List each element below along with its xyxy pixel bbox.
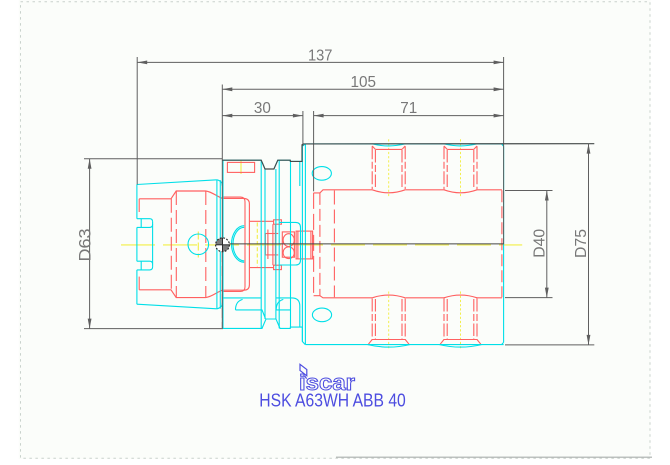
- threaded hole 4 (bottom right): [443, 299, 445, 340]
- shank-flange corner top: [217, 180, 223, 186]
- dim D63 arrows: [88, 159, 92, 169]
- shank bore step line 1: [170, 199, 172, 290]
- center ball: [216, 238, 230, 252]
- groove edge b: [260, 161, 262, 329]
- ext line left 137: [136, 57, 138, 185]
- screw cylinder rect: [296, 231, 313, 259]
- dim D63 line: [89, 159, 91, 329]
- clamp cross bottom: [265, 254, 278, 256]
- shank bore outline (hidden): [139, 191, 249, 298]
- hole3 centerline: [388, 292, 390, 350]
- dim 137 line: [137, 61, 503, 63]
- body bore top wall: [314, 190, 502, 193]
- centerline dark: [223, 243, 504, 245]
- body bore end face: [501, 190, 503, 297]
- body face ellipse top: [312, 167, 331, 181]
- clamp small rect top: [274, 220, 282, 224]
- shank bore left face top: [138, 199, 140, 212]
- screw ball upper: [283, 234, 294, 247]
- ext line step 30: [302, 111, 304, 146]
- clamp sphere arc outer: [231, 226, 244, 263]
- body left face: [304, 144, 306, 345]
- dim 71 arrows: [314, 114, 324, 118]
- iscar logo leaf: [300, 364, 307, 378]
- shank bore left face bottom: [138, 277, 140, 290]
- ext line D75 bottom: [505, 344, 594, 346]
- flange top edge with V-groove: [223, 144, 305, 169]
- ext line D63 top: [84, 158, 222, 160]
- dim 71 line: [314, 115, 504, 117]
- shank tip face: [136, 185, 138, 305]
- ext line body datum 71: [313, 111, 315, 191]
- gripper slot bottom: [223, 298, 299, 327]
- shank bore inner wall: [222, 197, 245, 291]
- side hole circle: [188, 234, 209, 255]
- ext line D40 top: [505, 190, 553, 192]
- flange bottom edge with V-groove: [223, 319, 305, 345]
- screw cylinder inner right: [310, 231, 312, 259]
- title block base line: [336, 456, 652, 458]
- body bore inner step: [319, 193, 321, 296]
- hole2 mouth arc: [444, 144, 477, 146]
- dark top profile: [222, 144, 594, 169]
- svg-text:D63: D63: [77, 229, 95, 262]
- hole3 mouth arc: [368, 345, 410, 348]
- svg-text:105: 105: [351, 74, 377, 91]
- mechanism vertical centerline: [256, 223, 258, 267]
- clamp sphere arc inner: [233, 227, 244, 261]
- clamp left column c: [272, 224, 274, 265]
- screw ball lower: [283, 247, 294, 259]
- shank-flange corner bottom: [217, 303, 223, 309]
- groove edge c: [264, 169, 266, 319]
- side hole vertical centerline: [197, 232, 199, 258]
- drive slot floor edge: [152, 222, 154, 267]
- threaded hole 2 (top right): [443, 146, 445, 189]
- groove edge e: [278, 161, 280, 329]
- flange keyway rect: [227, 162, 254, 172]
- keyway centerline: [240, 161, 242, 175]
- dim 30 line: [222, 115, 303, 117]
- drive slot bottom: [137, 261, 153, 270]
- main horizontal centerline (yellow): [121, 244, 522, 246]
- body bore mouth line: [313, 193, 315, 296]
- clamp left column b: [267, 230, 269, 260]
- clamp left column d: [274, 224, 276, 265]
- dim D75 arrows: [587, 144, 591, 154]
- groove edge f: [290, 161, 292, 329]
- clamp connector top: [249, 220, 273, 222]
- body right face: [502, 144, 504, 345]
- dim D40 arrows: [545, 191, 549, 201]
- relief groove edge: [219, 180, 221, 309]
- hole4 mouth arc: [440, 345, 482, 348]
- clamp small rect bottom: [274, 265, 282, 269]
- hole1 mouth arc: [372, 144, 405, 146]
- clamp cap: [279, 222, 300, 265]
- dim D75 line: [588, 144, 590, 345]
- svg-text:30: 30: [254, 100, 271, 117]
- flange left face: [222, 160, 224, 328]
- screw body rect: [282, 232, 294, 257]
- body bore bottom wall: [314, 296, 502, 298]
- body bottom edge: [306, 344, 504, 346]
- shank taper bottom edge: [137, 304, 217, 309]
- svg-text:HSK A63WH ABB 40: HSK A63WH ABB 40: [259, 389, 406, 410]
- ext line D40 bottom: [505, 297, 553, 299]
- dim 105 arrows: [222, 87, 232, 91]
- dim D40 line: [546, 191, 548, 298]
- shank bore step line 2: [175, 191, 177, 298]
- clamp cross top: [265, 233, 278, 235]
- hole4 centerline: [460, 292, 462, 350]
- dim 137 arrows: [137, 61, 147, 65]
- threaded hole 3 (bottom left): [371, 299, 373, 340]
- ext line flange face: [221, 85, 223, 329]
- screw cylinder inner left: [297, 231, 299, 259]
- body face ellipse bottom: [312, 308, 331, 322]
- shank bore gauge line: [205, 191, 207, 298]
- ext line right face: [503, 57, 505, 244]
- step edge: [301, 146, 303, 341]
- hole1 centerline: [388, 139, 390, 197]
- clamp connector bottom: [249, 267, 273, 269]
- svg-text:71: 71: [400, 100, 417, 117]
- clamp left column a: [264, 234, 266, 255]
- dim 30 arrows: [222, 114, 232, 118]
- svg-text:137: 137: [308, 47, 333, 64]
- groove edge d: [275, 169, 277, 319]
- hole2 centerline: [460, 139, 462, 197]
- body counterbore line: [333, 191, 335, 298]
- svg-text:D40: D40: [531, 228, 548, 257]
- dim 105 line: [222, 88, 503, 90]
- flange face hidden segment: [221, 252, 223, 328]
- svg-text:D75: D75: [573, 229, 590, 258]
- threaded hole 1 (top left): [371, 146, 373, 189]
- body top edge: [305, 143, 503, 145]
- ext line D63 bottom: [84, 328, 223, 330]
- drive slot top: [137, 219, 153, 228]
- taper big end edge: [216, 180, 218, 309]
- shank taper top edge: [137, 180, 217, 185]
- gripper slot top hint: [299, 161, 301, 186]
